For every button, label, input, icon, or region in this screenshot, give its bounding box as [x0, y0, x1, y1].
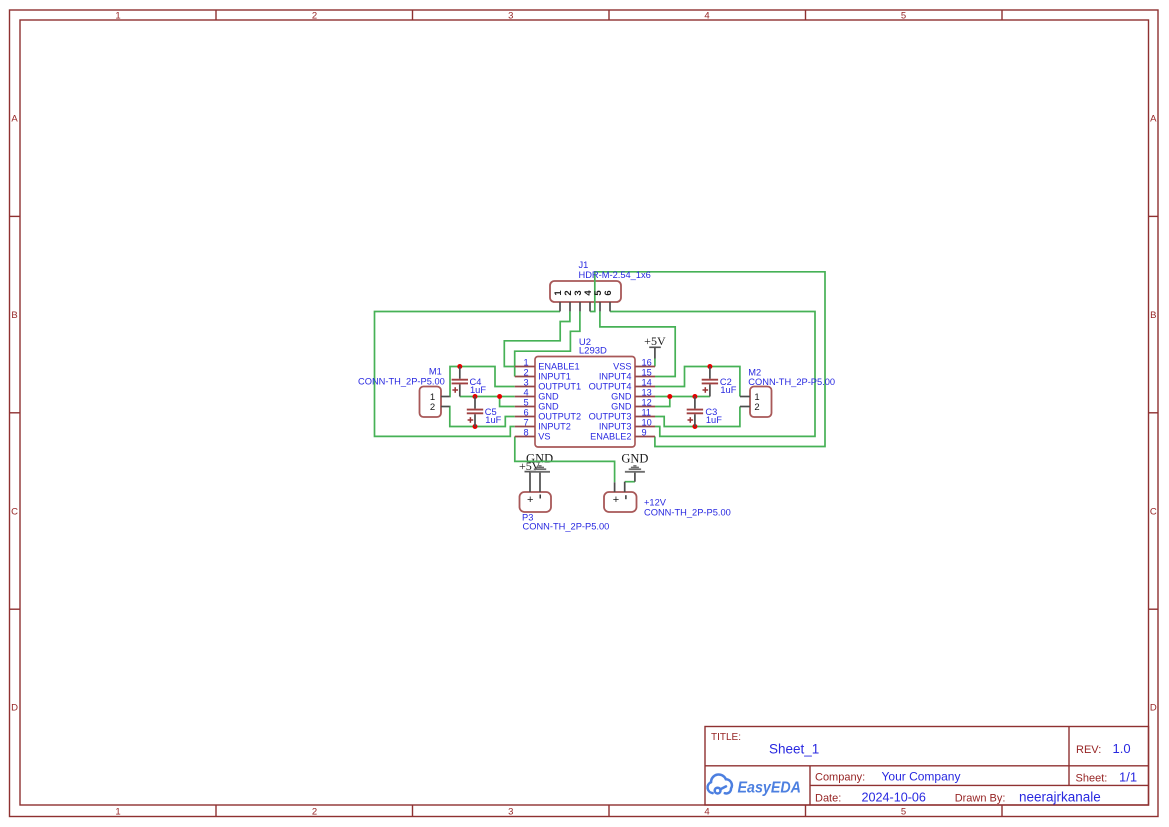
svg-text:C: C [11, 506, 18, 517]
svg-text:4: 4 [523, 388, 528, 398]
svg-text:A: A [11, 114, 18, 125]
svg-text:1: 1 [115, 11, 120, 22]
svg-text:1/1: 1/1 [1119, 770, 1137, 785]
svg-text:15: 15 [642, 368, 652, 378]
svg-text:1.0: 1.0 [1113, 741, 1131, 756]
svg-text:CONN-TH_2P-P5.00: CONN-TH_2P-P5.00 [523, 521, 610, 531]
wire OUTPUT3 / C3- / M2.2 [655, 407, 740, 427]
svg-text:2: 2 [430, 402, 435, 413]
power +5V at P3 pin1 [519, 459, 541, 492]
wire J1.5 to U2 INPUT4 [600, 311, 675, 376]
junction C2 top / OUTPUT4 net [707, 364, 712, 369]
svg-text:GND: GND [611, 402, 632, 412]
connector J1 stubs, digits and labels [560, 302, 610, 311]
junction dots [457, 364, 712, 429]
connector J1 rect [550, 281, 621, 302]
wire OUTPUT4 / C2+ / M2.1 [655, 367, 740, 397]
svg-text:HDR-M-2.54_1x6: HDR-M-2.54_1x6 [579, 270, 651, 280]
svg-text:ENABLE1: ENABLE1 [538, 362, 579, 372]
svg-text:INPUT3: INPUT3 [599, 422, 632, 432]
capacitor C5 [467, 397, 502, 427]
wire GND left branch to GND5 [500, 397, 515, 407]
svg-text:neerajrkanale: neerajrkanale [1019, 790, 1101, 805]
svg-text:GND: GND [538, 392, 559, 402]
wire VS to +12V pin1 [515, 437, 615, 483]
svg-text:5: 5 [901, 11, 906, 22]
svg-text:2: 2 [754, 402, 759, 413]
svg-text:9: 9 [642, 428, 647, 438]
junction C3 top / GND net [692, 394, 697, 399]
svg-text:1uF: 1uF [485, 415, 501, 425]
svg-text:1uF: 1uF [470, 385, 486, 395]
wire M1.1 / C4+ / OUTPUT1 [450, 367, 515, 397]
wires [375, 272, 826, 483]
svg-text:D: D [11, 703, 18, 714]
svg-text:M1: M1 [429, 366, 442, 376]
svg-text:+: + [613, 494, 619, 506]
junction C5 top / GND net [473, 394, 478, 399]
svg-text:VSS: VSS [613, 362, 631, 372]
svg-text:+5V: +5V [519, 459, 541, 473]
svg-text:OUTPUT4: OUTPUT4 [589, 382, 632, 392]
junction GND net branch to pin 12 [667, 394, 672, 399]
svg-text:7: 7 [523, 418, 528, 428]
svg-text:3: 3 [508, 807, 513, 818]
svg-text:6: 6 [523, 408, 528, 418]
wire VSS to +5V [654, 359, 656, 367]
wire J1.1 to U2 INPUT2 [375, 312, 561, 437]
wire J1.3 to U2 INPUT1 [515, 311, 580, 376]
svg-text:1uF: 1uF [720, 385, 736, 395]
svg-text:10: 10 [642, 418, 652, 428]
svg-text:2: 2 [523, 368, 528, 378]
EasyEDA logo [708, 774, 732, 793]
svg-text:OUTPUT3: OUTPUT3 [589, 412, 632, 422]
svg-text:B: B [11, 310, 17, 321]
svg-text:+12V: +12V [644, 497, 667, 507]
svg-text:CONN-TH_2P-P5.00: CONN-TH_2P-P5.00 [748, 377, 835, 387]
junction GND net branch to pin 5 [497, 394, 502, 399]
IC U2 body [535, 337, 635, 447]
svg-text:VS: VS [538, 432, 550, 442]
junction C3 bottom / OUTPUT3 net [692, 424, 697, 429]
svg-text:+5V: +5V [644, 334, 666, 348]
connector M1 [358, 366, 450, 417]
svg-text:CONN-TH_2P-P5.00: CONN-TH_2P-P5.00 [644, 507, 731, 517]
svg-text:L293D: L293D [579, 346, 607, 357]
capacitor C4 [452, 367, 487, 397]
svg-text:1: 1 [523, 358, 528, 368]
svg-text:2024-10-06: 2024-10-06 [862, 791, 926, 805]
svg-text:5: 5 [523, 398, 528, 408]
power +5V at U2 VSS [644, 334, 666, 359]
U2 pin numbers [523, 358, 528, 438]
svg-text:+: + [527, 494, 533, 506]
svg-text:REV:: REV: [1076, 744, 1101, 756]
svg-text:EasyEDA: EasyEDA [738, 779, 802, 796]
ground GND at P3 pin2 [530, 466, 550, 492]
svg-text:OUTPUT1: OUTPUT1 [538, 382, 581, 392]
wire J1.6 to U2 INPUT3 [610, 312, 815, 437]
svg-text:D: D [1150, 703, 1157, 714]
junction C4 top / OUTPUT1 net [457, 364, 462, 369]
svg-text:Company:: Company: [815, 772, 865, 784]
svg-text:J1: J1 [579, 260, 589, 270]
svg-text:GND: GND [538, 402, 559, 412]
svg-text:5: 5 [901, 807, 906, 818]
title block [705, 727, 1149, 806]
svg-text:C: C [1150, 506, 1157, 517]
ground GND at +12V pin2 [625, 466, 645, 482]
wire GND right: GND13 to C2- [655, 396, 710, 398]
svg-text:GND: GND [611, 392, 632, 402]
svg-text:3: 3 [523, 378, 528, 388]
wire GND right branch to GND12 [655, 397, 670, 407]
svg-text:OUTPUT2: OUTPUT2 [538, 412, 581, 422]
connector P3 [520, 492, 610, 531]
svg-text:B: B [1150, 310, 1156, 321]
svg-text:12: 12 [642, 398, 652, 408]
svg-text:6: 6 [603, 290, 614, 295]
svg-text:M2: M2 [748, 367, 761, 377]
svg-text:A: A [1150, 114, 1157, 125]
connector P2 +12V [604, 482, 731, 518]
svg-text:4: 4 [704, 807, 709, 818]
svg-text:1uF: 1uF [706, 415, 722, 425]
svg-text:Your Company: Your Company [882, 769, 961, 783]
svg-text:14: 14 [642, 378, 652, 388]
wire GND left: C4- C5+ GND4 [460, 396, 515, 398]
svg-text:GND: GND [621, 451, 648, 465]
connector M2 [740, 367, 835, 417]
svg-text:TITLE:: TITLE: [711, 732, 741, 743]
svg-text:INPUT1: INPUT1 [538, 372, 571, 382]
U2 pin stubs [515, 367, 655, 437]
svg-text:2: 2 [312, 807, 317, 818]
svg-text:1: 1 [115, 807, 120, 818]
wire J1.4 to U2 ENABLE2 [590, 272, 825, 447]
svg-text:Sheet_1: Sheet_1 [769, 742, 819, 757]
capacitor C2 [702, 367, 737, 397]
wire +12V pin2 to GND jog [625, 481, 635, 483]
U2 pin names [538, 362, 581, 442]
svg-text:INPUT4: INPUT4 [599, 372, 632, 382]
svg-text:Drawn By:: Drawn By: [955, 793, 1006, 805]
svg-text:INPUT2: INPUT2 [538, 422, 571, 432]
wire J1.2 to U2 ENABLE1 [504, 311, 570, 366]
svg-text:3: 3 [508, 11, 513, 22]
svg-text:4: 4 [704, 11, 709, 22]
wire M1.2 / C5- / OUTPUT2 [450, 407, 515, 427]
svg-text:ENABLE2: ENABLE2 [590, 432, 631, 442]
svg-text:2: 2 [312, 11, 317, 22]
svg-text:16: 16 [642, 358, 652, 368]
svg-text:Sheet:: Sheet: [1076, 773, 1108, 785]
svg-text:CONN-TH_2P-P5.00: CONN-TH_2P-P5.00 [358, 377, 445, 387]
svg-text:Date:: Date: [815, 793, 841, 805]
svg-text:11: 11 [642, 408, 652, 418]
svg-text:8: 8 [523, 428, 528, 438]
junction C5 bottom / OUTPUT2 net [473, 424, 478, 429]
capacitor C3 [687, 397, 723, 427]
svg-text:13: 13 [642, 388, 652, 398]
